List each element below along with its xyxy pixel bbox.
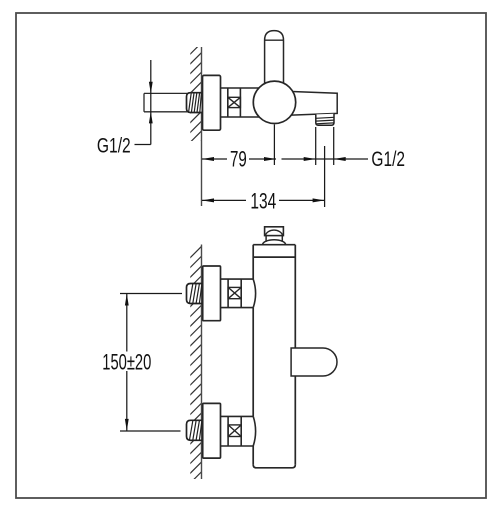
top knob [263,240,286,245]
extension lines [273,125,275,166]
svg-text:G1/2: G1/2 [97,135,131,158]
wall line (top view) [201,47,203,206]
wall line (bottom view) [201,245,203,480]
mixer body circle [253,81,295,123]
shower hose horn [291,348,337,376]
bottom threaded inlet [187,420,203,440]
wall hatching (bottom view) [185,242,206,498]
handle lever [265,31,284,86]
svg-text:G1/2: G1/2 [371,148,405,171]
svg-text:150±20: 150±20 [102,350,151,375]
connector body lines to mixer [221,88,263,117]
wall plate (escutcheon, top view) [203,75,221,130]
wall plates (bottom view) [203,266,221,321]
134 dim line [202,199,246,201]
union nut X-box [228,97,241,107]
spout [272,91,337,116]
mixer body (bottom view) [253,245,295,468]
bottom connector [221,416,256,446]
79 dim line [202,158,227,160]
top connector [221,279,256,308]
svg-text:79: 79 [230,146,247,171]
G1/2 left: vertical dim line [150,60,152,145]
inlet pipe (plain section) [144,93,188,111]
top threaded inlet [187,284,203,304]
G1/2 right dim line [282,158,369,160]
threaded outlet [316,114,334,126]
threaded wall fitting [187,93,202,113]
wall hatching (top view) [185,38,206,157]
svg-text:134: 134 [250,188,276,213]
